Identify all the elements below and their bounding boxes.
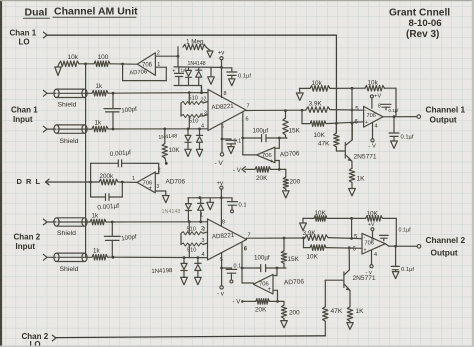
wire input arrow ch1+ [43, 90, 47, 96]
pin 8 cap ch2 [371, 228, 411, 244]
capacitor 1uF ch1 [172, 67, 187, 86]
wire fb drop ch2 [351, 218, 353, 238]
svg-text:0.1µf: 0.1µf [389, 108, 400, 113]
wire pin2 stub [203, 102, 208, 104]
svg-text:Dual: Dual [25, 7, 48, 19]
wire ch1- to pin4 [108, 128, 208, 130]
wire emitter ch2 [349, 290, 351, 306]
wire DRL fb left [90, 163, 92, 197]
capacitor 0.1uF out ch1 [389, 117, 414, 149]
svg-text:10k: 10k [312, 80, 323, 87]
node 100pf top [112, 92, 115, 95]
resistor 100 guard [94, 54, 110, 67]
svg-text:Shield: Shield [57, 230, 76, 237]
wire fb right ch1 [384, 88, 396, 116]
node DRL label [17, 177, 42, 186]
power -V ch1 [215, 153, 224, 167]
svg-text:+V: +V [368, 222, 375, 228]
wire 1Meg left vertical [177, 47, 179, 67]
svg-text:47K: 47K [318, 141, 330, 148]
svg-text:1N4148: 1N4148 [188, 61, 206, 67]
diode D5 ch2 [185, 198, 191, 222]
svg-text:3: 3 [157, 184, 160, 190]
svg-text:AD706: AD706 [166, 179, 186, 186]
wire collector ch2 [348, 248, 350, 270]
capacitor 100uF ch2 [242, 255, 286, 272]
title text [24, 6, 139, 19]
resistor 510 A ch2 [181, 227, 206, 235]
capacitor 0.001uF bottom [91, 182, 123, 211]
wire pin6 drop ch2 [241, 243, 243, 284]
node out junction ch2 [302, 237, 305, 240]
svg-text:8: 8 [224, 91, 227, 97]
wire output ch2 [385, 244, 417, 247]
svg-text:706: 706 [367, 113, 376, 119]
wire input arrow ch2+ [43, 219, 47, 225]
wire pin3 stub [203, 115, 208, 117]
resistor 1 Meg [183, 39, 206, 50]
arrow connector ch2 diodes [207, 198, 214, 210]
wire +v to pin8 ch1 [221, 60, 223, 98]
label AD706 servo ch1 [280, 150, 300, 158]
node Chan2 Input label [14, 233, 41, 252]
svg-text:+v: +v [218, 51, 225, 57]
svg-text:100: 100 [98, 54, 109, 61]
wire 510B drop [188, 116, 190, 129]
power -V servo ch2 [233, 299, 244, 306]
pin6 text ch2 [244, 247, 247, 253]
pin 3 label U4 [201, 238, 204, 244]
diode D2 ch1 [196, 67, 202, 85]
capacitor 0.001uF top [91, 149, 159, 167]
node diode drop ch2c [183, 256, 186, 259]
svg-text:AD706: AD706 [129, 69, 147, 76]
node Channel 1 Output label [426, 105, 466, 125]
wire junction drop ch1 [301, 110, 303, 123]
wire servo out ch1 [243, 154, 257, 156]
pin 7 label U2 [247, 104, 250, 110]
resistor 1K ch1 [349, 168, 366, 196]
svg-text:LO: LO [19, 38, 30, 47]
resistor 10K ground ch2 [303, 210, 366, 221]
svg-text:1N4198: 1N4198 [151, 268, 173, 275]
wire emitter ch1 [351, 161, 353, 168]
svg-text:4: 4 [374, 252, 377, 258]
capacitor 0.1 pin5 ch2 [222, 264, 241, 284]
resistor 10k ground ch1 [300, 80, 365, 91]
wire input lead ch2+ [47, 221, 56, 223]
resistor 200k DRL [99, 173, 118, 185]
capacitor 100uF ch1 [243, 128, 287, 142]
diode D6 ch2 [198, 198, 204, 222]
wire base ch1 [336, 147, 344, 151]
arrow connector ch1 diodes [208, 67, 215, 84]
svg-text:8: 8 [371, 238, 374, 244]
wire pin3 stub ch2 [203, 243, 208, 245]
svg-text:Output: Output [431, 248, 458, 258]
pin 2 label U2 [200, 98, 203, 104]
svg-text:1N4148: 1N4148 [162, 209, 181, 215]
svg-text:2: 2 [157, 51, 160, 57]
svg-text:- V: - V [215, 160, 224, 167]
wire DRL arrow [46, 179, 50, 185]
svg-text:1k: 1k [95, 120, 102, 127]
resistor 47K ch2 [323, 280, 343, 336]
wire 510 left link ch2 [180, 233, 182, 244]
svg-text:0.1: 0.1 [234, 139, 242, 145]
node +v diode tap ch2 [220, 196, 223, 199]
svg-text:+: + [149, 186, 153, 192]
wire fb right ch2 [383, 218, 397, 246]
label 2N5771 ch2 [353, 275, 376, 282]
wire pin6 drop ch1 [242, 113, 244, 155]
resistor 3.9K ch2 [303, 230, 329, 240]
wire Chan1 LO arrow [43, 32, 47, 38]
wire AD8221 out ch2 [247, 238, 306, 240]
wire input lead ch2- [47, 256, 56, 258]
svg-text:Input: Input [13, 115, 33, 124]
capacitor 100pf ch1 [104, 93, 137, 129]
node 100pf bottom [112, 128, 115, 131]
wire minus stub ch1 [275, 138, 279, 148]
pin 4 label U4 [201, 252, 204, 258]
svg-text:706: 706 [142, 63, 153, 69]
wire to pin5 ch1 [330, 109, 364, 112]
node coll tap ch2 [348, 246, 351, 249]
node servo cap left ch1 [241, 137, 244, 140]
label 1N4148 ch2 top [162, 209, 181, 215]
wire 100 to opamp [110, 63, 137, 65]
wire pin5 drop ch1 [221, 123, 223, 152]
resistor 1k ch1+ [92, 83, 108, 96]
label shield 4 [60, 266, 79, 273]
pin 1 label U1A [157, 62, 160, 68]
wire to pin5 ch2 [328, 238, 362, 239]
power +V out ch2 [368, 222, 375, 238]
resistor 10k feedback ch1 [365, 80, 385, 92]
svg-text:10K: 10K [367, 211, 379, 218]
wire DRL line [46, 181, 100, 183]
wire input lead ch1+ [47, 92, 56, 94]
wire fb drop ch1 [351, 88, 353, 139]
wire base ch2 [325, 279, 343, 281]
svg-text:D R L: D R L [17, 177, 42, 186]
svg-text:4: 4 [375, 124, 378, 130]
wire Chan2 LO arrow [52, 335, 56, 341]
pin 2 label U4 [201, 226, 204, 232]
pin 4 stub ch1 [373, 123, 378, 139]
resistor 47K ch1 [318, 123, 339, 147]
svg-text:1: 1 [157, 62, 160, 68]
wire input lead ch1- [47, 128, 56, 130]
svg-text:+: + [268, 287, 272, 293]
resistor 20K ch2 [242, 299, 284, 314]
capacitor 0.1uF bypass ch2 [221, 198, 246, 213]
svg-text:1: 1 [200, 87, 203, 93]
svg-text:0.1µf: 0.1µf [401, 135, 414, 141]
svg-text:+: + [365, 120, 368, 126]
node 15K top ch2 [283, 237, 286, 240]
wire collector ch1 [351, 123, 353, 140]
pin 2 label U1A [157, 51, 160, 57]
diode D1 ch1 [186, 67, 192, 85]
pin 6 label U2 [246, 117, 249, 123]
node Chan1 Input label [11, 106, 38, 125]
wire 510A drop [188, 93, 190, 103]
pin 6 label U6B [353, 247, 357, 253]
output terminal ch1 [417, 115, 421, 119]
label 1N4148 ch1 top [188, 61, 206, 67]
svg-text:6: 6 [246, 117, 249, 123]
node DRL bus junction [89, 181, 92, 184]
shield cable ch2+ [54, 218, 90, 226]
svg-text:0.1: 0.1 [239, 203, 247, 209]
wire Chan2 LO line [56, 336, 325, 338]
resistor 510 B ch1 [181, 111, 207, 125]
svg-text:10K: 10K [307, 254, 319, 261]
power -V servo ch1 [233, 167, 245, 174]
resistor 1K ch2 [347, 307, 364, 330]
node guard divider junction [84, 63, 87, 66]
svg-text:Input: Input [16, 242, 36, 251]
node drl tap ch1 [163, 127, 166, 130]
node diode rail junction ch2 [198, 196, 201, 199]
svg-text:8-10-06: 8-10-06 [409, 18, 442, 29]
svg-text:0.1: 0.1 [234, 264, 242, 270]
svg-text:- v: - v [217, 291, 225, 298]
wire to pin6 ch2 [326, 247, 362, 250]
node 200k out junction [121, 181, 124, 184]
wire output ch1 [383, 116, 417, 118]
wire pin5 drop ch2 [221, 253, 223, 286]
op-amp U6A 706 out ch1 [364, 106, 383, 127]
svg-text:2N5771: 2N5771 [353, 275, 376, 282]
pin 5 label U6B [354, 235, 358, 241]
svg-text:3.9K: 3.9K [303, 230, 317, 237]
wire ch2+ to pin1 [106, 221, 208, 223]
resistor 510 A ch1 [181, 96, 207, 105]
node plus node ch1 [278, 168, 281, 171]
diode D4 ch1 [196, 129, 202, 157]
power +v ch2 [217, 181, 224, 189]
wire divider [79, 63, 94, 65]
pin 5 label U6A [355, 107, 359, 113]
svg-text:1k: 1k [92, 213, 99, 220]
svg-text:Output: Output [430, 115, 457, 125]
svg-text:0.1µf: 0.1µf [238, 74, 251, 80]
node out cap tap ch2 [394, 245, 397, 248]
svg-text:510: 510 [189, 119, 198, 125]
svg-text:-: - [269, 274, 271, 280]
wire shield guard bus [85, 64, 87, 257]
label shield 1 [58, 102, 77, 109]
pin 1 label U4 [200, 213, 203, 219]
pin 6 label U6A [355, 120, 359, 126]
pin 4 stub ch2 [372, 250, 378, 265]
svg-text:1: 1 [132, 176, 135, 182]
op-amp U3B AD706 DRL [137, 172, 155, 193]
svg-text:8: 8 [222, 219, 225, 225]
resistor 10K drl tap ch1 [162, 129, 180, 158]
node lo cross ch1 [335, 122, 338, 125]
label 2N5771 ch1 [354, 154, 377, 161]
capacitor 100pf ch2 [104, 222, 137, 257]
output terminal ch2 [417, 245, 421, 249]
transistor Q2 2N5771 [344, 270, 350, 291]
svg-text:10k: 10k [368, 80, 379, 87]
resistor 10K gain ch2 [304, 245, 327, 261]
svg-text:+: + [270, 159, 274, 165]
wire 200k to opamp [118, 181, 137, 183]
label AD706 servo ch2 [284, 278, 305, 286]
node fb tap pin5 ch1 [351, 109, 354, 112]
svg-text:AD706: AD706 [284, 278, 305, 286]
shield cable ch1- [54, 125, 92, 133]
wire input arrow ch2- [43, 254, 47, 260]
power +V out ch1 [370, 94, 381, 109]
wire minus stub ch2 [273, 268, 277, 276]
power -V out ch2 [366, 265, 374, 276]
svg-text:7: 7 [247, 104, 250, 110]
wire 510A drop ch2 [188, 222, 190, 234]
svg-text:(Rev 3): (Rev 3) [406, 29, 439, 40]
node 100pf top ch2 [111, 221, 114, 224]
node coll tap ch1 [351, 122, 354, 125]
label 1N4198 ch2 bottom [151, 268, 173, 275]
svg-text:100µf: 100µf [253, 128, 269, 135]
node Chan2 LO label [22, 332, 49, 347]
svg-text:+: + [172, 68, 175, 74]
node servo cap left ch2 [241, 267, 244, 270]
node pin5 cap tap ch2 [220, 267, 223, 270]
wire diode top rail ch1 [174, 66, 222, 69]
resistor 15K ch1 [283, 111, 301, 138]
svg-text:2N5771: 2N5771 [354, 154, 377, 161]
svg-text:20K: 20K [255, 307, 267, 314]
svg-text:0.1µf: 0.1µf [401, 267, 414, 273]
svg-text:510: 510 [189, 96, 198, 102]
svg-text:4: 4 [201, 252, 204, 258]
svg-text:Chan 2: Chan 2 [14, 233, 41, 242]
op-amp U4 AD8221 ch2 [208, 219, 247, 260]
label AD706 DRL [166, 179, 186, 186]
op-amp U5A AD706 servo ch2 [253, 274, 273, 294]
svg-text:10K: 10K [169, 147, 181, 154]
op-amp U2 AD8221 ch1 [208, 90, 246, 131]
svg-text:AD706: AD706 [280, 150, 300, 158]
svg-text:1k: 1k [96, 83, 103, 90]
wire ch2- to pin4 [108, 256, 208, 258]
resistor 3.9K ch1 [306, 101, 330, 113]
author block [389, 8, 450, 41]
svg-text:10k: 10k [68, 54, 79, 61]
wire follower feedback [123, 64, 167, 81]
wire input arrow ch1- [43, 126, 47, 132]
capacitor 0.1uF bypass ch1 [222, 68, 252, 86]
node Channel 2 Output label [426, 235, 466, 258]
svg-text:- V: - V [233, 167, 242, 174]
node diode drop ch2a [188, 220, 191, 223]
svg-text:200k: 200k [100, 173, 115, 180]
capacitor 0.1 pin5 ch1 [222, 139, 241, 154]
pin 3 label U2 [200, 113, 203, 119]
label shield 2 [60, 138, 79, 145]
power +v ch1 [218, 51, 225, 60]
svg-text:+V: +V [374, 94, 381, 100]
svg-text:Channel 2: Channel 2 [426, 235, 466, 245]
svg-text:-: - [271, 147, 273, 153]
node +v diode tap ch1 [220, 66, 223, 69]
label shield 3 [57, 230, 76, 237]
wire 510B drop ch2 [188, 245, 190, 258]
node pin5 cap tap ch1 [221, 138, 224, 141]
svg-text:1K: 1K [357, 176, 366, 183]
wire Chan1 LO drop to 47K [335, 35, 337, 133]
node diode drop ch2d [197, 256, 200, 259]
svg-text:2: 2 [158, 168, 161, 174]
wire junction drop ch2 [303, 238, 305, 248]
wire AD8221 out ch1 [246, 109, 306, 111]
svg-text:100µf: 100µf [254, 255, 270, 262]
node diode drop ch2b [199, 220, 202, 223]
svg-text:1k: 1k [93, 248, 100, 255]
node 15K top ch1 [284, 109, 287, 112]
svg-text:510: 510 [187, 248, 196, 254]
node plus node ch2 [276, 300, 279, 303]
resistor 510 B ch2 [181, 243, 203, 254]
wire DRL pin2 stub [155, 163, 161, 173]
wire diode top rail ch2 [188, 197, 222, 199]
diode D7 ch2 [181, 258, 188, 285]
shield cable ch2- [54, 253, 92, 261]
pin 1 label U2 [200, 87, 203, 93]
node fb tap pin5 ch2 [350, 237, 353, 240]
svg-text:15K: 15K [289, 128, 301, 135]
op-amp U3A AD706 servo ch1 [257, 147, 275, 166]
svg-text:20K: 20K [256, 175, 268, 182]
node diode drop3 ch1- [198, 127, 201, 130]
node out cap tap ch1 [393, 115, 396, 118]
shield cable ch1+ [54, 89, 92, 97]
svg-text:Shield: Shield [60, 138, 79, 145]
wire plus stub ch2 [273, 290, 278, 301]
svg-text:10K: 10K [314, 132, 326, 139]
resistor 20K ch1 [245, 167, 286, 182]
pin 7 label U4 [248, 233, 251, 239]
diode D8 ch2 [195, 258, 202, 285]
svg-text:Shield: Shield [60, 266, 79, 273]
pin 8 label U4 [222, 219, 225, 225]
svg-text:6: 6 [244, 247, 247, 253]
wire to pin6 ch1 [326, 122, 364, 124]
wire DRL pin3 stub [155, 184, 169, 203]
node servo minus tap ch1 [278, 137, 281, 140]
wire pin2 stub ch2 [203, 232, 208, 234]
node out junction ch1 [301, 109, 304, 112]
node fb left node ch1 [351, 87, 354, 90]
wire diode bottom rail ch1 [174, 86, 202, 93]
pin 8 label U2 [224, 91, 227, 97]
wire 10k left stub + arrow [55, 64, 61, 76]
wire ch1+ to pin1 [108, 92, 208, 95]
svg-text:1 Meg: 1 Meg [186, 39, 204, 46]
wire Chan1 LO line [47, 34, 336, 36]
svg-text:1: 1 [200, 213, 203, 219]
svg-text:Chan 1: Chan 1 [10, 29, 37, 38]
ground arrow 10K ch2 [300, 218, 307, 230]
svg-text:3.9K: 3.9K [309, 101, 323, 108]
label 1N4148 ch1 bottom [158, 133, 177, 141]
